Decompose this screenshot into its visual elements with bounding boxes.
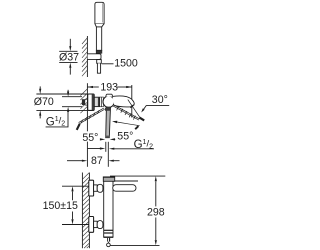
svg-text:150±15: 150±15 — [43, 200, 78, 212]
svg-text:Ø70: Ø70 — [34, 96, 54, 108]
svg-text:55°: 55° — [82, 132, 98, 144]
svg-text:298: 298 — [147, 206, 165, 218]
svg-text:193: 193 — [100, 82, 118, 94]
svg-text:1500: 1500 — [114, 57, 138, 69]
svg-text:30°: 30° — [152, 94, 168, 106]
svg-text:Ø37: Ø37 — [59, 52, 79, 64]
svg-text:87: 87 — [91, 155, 103, 167]
svg-text:55°: 55° — [117, 131, 133, 143]
